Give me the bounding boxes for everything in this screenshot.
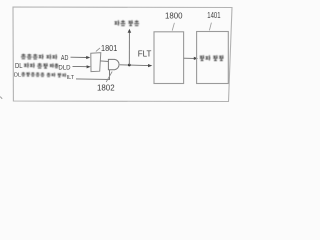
svg-text:DLD: DLD	[58, 64, 70, 71]
box 1800	[154, 32, 184, 84]
leader tick 1401	[209, 23, 211, 31]
arrowhead DLD into 1801	[87, 65, 91, 68]
leader tick 1802	[106, 72, 112, 83]
text: selection unit inside 1401	[200, 55, 224, 60]
node label: spare signal	[115, 20, 140, 25]
wire: AD input line	[71, 56, 87, 58]
svg-text:ILT: ILT	[67, 75, 75, 81]
junction dot	[128, 64, 131, 67]
wire: 1802 output to box 1800	[120, 64, 149, 67]
arrowhead up to spare signal	[128, 29, 132, 33]
arrowhead into box 1800	[148, 64, 152, 67]
svg-text:DL: DL	[15, 63, 23, 70]
node label: address signal AD	[21, 54, 57, 60]
svg-text:FLT: FLT	[138, 49, 152, 58]
leader tick 1800	[172, 23, 174, 31]
wire: DLD input line	[73, 65, 88, 67]
leader tick 1801	[96, 48, 100, 52]
svg-text:1800: 1800	[165, 11, 183, 20]
wire: ILT line bending up into 1802	[76, 70, 110, 80]
svg-text:1801: 1801	[101, 44, 118, 53]
wire: 1801 output to 1802	[100, 60, 108, 63]
arrowhead AD into 1801	[86, 56, 90, 59]
box 1401 selection unit	[197, 32, 229, 84]
arrowhead into 1401	[194, 57, 198, 60]
wire: arrow 1800 to 1401	[184, 57, 195, 59]
svg-text:1401: 1401	[207, 11, 221, 20]
wire: spare-signal branch	[128, 32, 130, 65]
svg-text:DL: DL	[14, 72, 21, 78]
selector block 1801	[91, 53, 101, 72]
svg-text:AD: AD	[61, 55, 69, 62]
svg-text:1802: 1802	[97, 83, 115, 92]
AND gate 1802	[108, 59, 119, 69]
